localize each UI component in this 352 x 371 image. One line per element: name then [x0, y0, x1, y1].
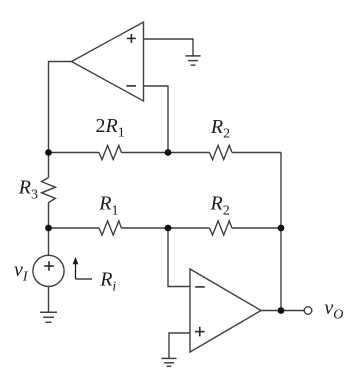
op-amp U2 (bottom, output at right apex)	[190, 269, 261, 352]
U1 pin − (inverting input)	[126, 85, 136, 87]
ground (below source VI)	[40, 312, 57, 322]
resistor R2 (bottom)	[210, 221, 232, 235]
wire: U1 − input down to node B	[144, 86, 169, 153]
wire: U2 output to terminal vO	[261, 310, 304, 312]
VI polarity +	[44, 261, 54, 271]
svg-text:R1: R1	[98, 193, 118, 219]
wire: bottom rail R2 to node E	[232, 227, 281, 229]
wire: top rail segment node A to 2R1	[49, 152, 100, 154]
ground (top right)	[185, 56, 200, 65]
wire: bottom rail R1 to R2	[121, 227, 209, 229]
node A (left bus / top rail junction)	[45, 149, 52, 156]
svg-text:vI: vI	[14, 259, 29, 285]
resistor R1	[99, 221, 121, 235]
wire: U1 + input to ground	[144, 39, 194, 56]
resistor 2R1	[99, 145, 121, 159]
voltage source VI	[33, 255, 64, 286]
resistor R2 (top)	[210, 145, 232, 159]
node D (bottom rail / U2 − junction)	[165, 225, 172, 232]
wire: source VI to ground	[48, 287, 50, 313]
wire: R3 lower lead to node C	[48, 203, 50, 229]
op-amp U1 (top, output at left apex)	[72, 22, 144, 101]
ground (below U2 + input)	[162, 358, 177, 366]
terminal vO (open circle)	[304, 307, 312, 315]
resistor R3 (vertical)	[42, 178, 56, 203]
Ri arrow (input resistance indicator)	[73, 257, 92, 279]
svg-text:Ri: Ri	[99, 269, 116, 295]
svg-text:R3: R3	[18, 177, 38, 203]
node B (top rail / U1 − feedback junction)	[165, 149, 172, 156]
svg-text:R2: R2	[210, 193, 230, 219]
wire: node D down to U2 − input	[168, 228, 190, 287]
node C (left bus / bottom rail junction)	[45, 225, 52, 232]
svg-text:2R1: 2R1	[96, 115, 125, 141]
node E (bottom rail / right bus junction)	[278, 225, 285, 232]
wire: U1 output to left vertical bus	[49, 62, 72, 153]
svg-text:vO: vO	[324, 297, 343, 323]
U2 pin + (noninverting input)	[195, 327, 205, 337]
wire: bottom rail node C to R1	[49, 227, 100, 229]
U1 pin + (noninverting input)	[127, 34, 136, 43]
wire: node A to R3 upper lead	[48, 153, 50, 178]
U2 pin − (inverting input)	[195, 286, 205, 288]
node F (output junction)	[278, 307, 285, 314]
svg-text:R2: R2	[210, 116, 230, 142]
wire: node C down to source VI	[48, 228, 50, 255]
wire: right vertical bus	[280, 153, 282, 311]
wire: top rail R2 to right bus	[232, 152, 281, 154]
wire: top rail 2R1 to R2	[121, 152, 209, 154]
wire: U2 + input to ground	[169, 333, 190, 358]
